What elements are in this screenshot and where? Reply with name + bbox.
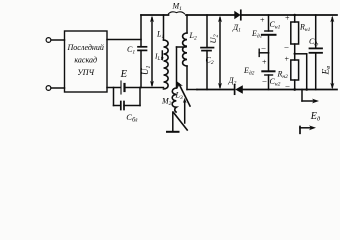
hatch stroke xyxy=(174,113,188,131)
coupling arrow M2 (diagonal through L3) xyxy=(177,81,190,106)
wire xyxy=(51,39,65,41)
svg-text:Последний: Последний xyxy=(67,43,104,52)
current arrow IL1 xyxy=(161,51,164,61)
input terminal top xyxy=(46,38,51,43)
wire bottom rail after D2 xyxy=(243,89,337,91)
voltage arrow Ev xyxy=(330,16,334,90)
capacitor Cn2 xyxy=(262,53,274,90)
blocking capacitor Cbl loop xyxy=(114,88,141,110)
wire top rail left tank xyxy=(141,14,169,16)
diode D1 xyxy=(234,10,241,19)
capacitor Cf xyxy=(310,15,323,90)
diode D2 xyxy=(235,85,243,94)
node Rn2 bottom xyxy=(293,88,296,91)
polarity marks xyxy=(260,14,291,91)
wire L2 bottom corner xyxy=(187,89,197,91)
bottom rail left xyxy=(107,87,120,89)
svg-text:E: E xyxy=(120,69,128,80)
capacitor C2 xyxy=(201,15,214,90)
text: block label xyxy=(67,43,104,77)
node xyxy=(305,88,308,91)
resistor Rn2 xyxy=(291,54,299,90)
wire from R midpoint to bottom rail xyxy=(295,54,307,90)
inductor L1 xyxy=(164,15,169,89)
bottom rail right xyxy=(197,89,234,91)
coupling M1 brace xyxy=(169,12,185,14)
wire xyxy=(51,87,65,89)
svg-text:+: + xyxy=(260,16,265,25)
wire box to C1 node xyxy=(107,39,141,41)
ground chassis bar xyxy=(167,131,179,133)
voltage arrow U2 xyxy=(218,16,222,90)
resistor Rn1 xyxy=(291,15,299,54)
svg-text:УПЧ: УПЧ xyxy=(77,68,94,77)
block: last IF stage xyxy=(65,31,108,92)
node Rn1 top xyxy=(293,14,296,17)
svg-text:+: + xyxy=(262,58,267,67)
inductor L3 (variometer) xyxy=(171,88,177,131)
wire center tap of L2 xyxy=(177,47,187,88)
capacitor C1 xyxy=(138,15,147,88)
capacitor Cn1 xyxy=(262,15,276,53)
wire top rail after D1 xyxy=(241,14,337,16)
svg-text:+: + xyxy=(285,14,290,23)
output arrow (bottom right) xyxy=(302,90,319,104)
input terminal bottom xyxy=(46,86,51,91)
top rail right xyxy=(186,14,234,16)
node R middle xyxy=(294,53,296,55)
voltage arrow U1 xyxy=(150,16,154,88)
output tap bar xyxy=(259,49,268,56)
svg-text:каскад: каскад xyxy=(74,56,97,65)
inductor L2 xyxy=(183,15,187,90)
battery E xyxy=(121,81,125,94)
variometer adjust arrow xyxy=(183,98,187,123)
svg-text:+: + xyxy=(284,55,289,64)
terminal Ed xyxy=(300,125,316,133)
